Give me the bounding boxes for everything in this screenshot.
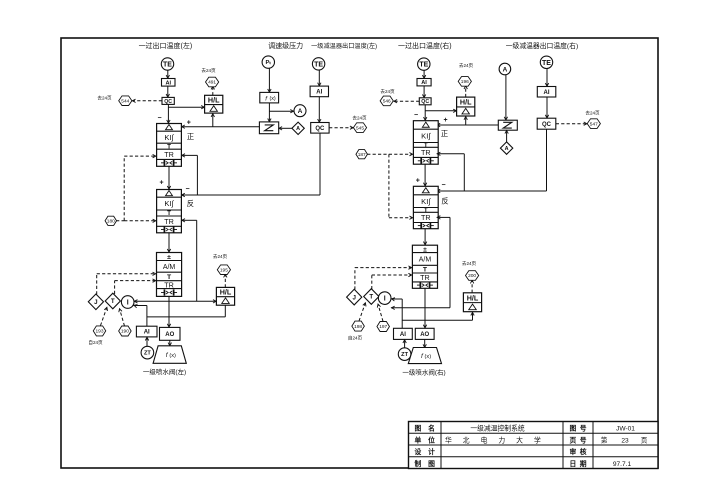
svg-text:TE: TE — [163, 62, 172, 69]
block QC4 — [537, 118, 556, 129]
wire H/L2-hex195 dashed — [224, 274, 226, 287]
hexagon 195 — [217, 265, 230, 275]
svg-text:正: 正 — [187, 132, 195, 141]
wire AI4-QC3 — [423, 86, 425, 98]
hexagon 545 — [353, 123, 366, 133]
wire hex187 dashed net — [367, 153, 412, 155]
svg-text:页 号: 页 号 — [570, 435, 587, 444]
svg-text:AI: AI — [165, 80, 171, 86]
sensor Pt — [262, 56, 274, 68]
hexagon 547 — [587, 119, 600, 129]
svg-text:TR: TR — [164, 150, 174, 159]
wire QC3 branch to H/L3 — [425, 110, 456, 112]
svg-text:J: J — [94, 299, 98, 306]
title block — [409, 422, 659, 469]
svg-text:去24页: 去24页 — [459, 62, 474, 69]
svg-text:H/L: H/L — [220, 288, 232, 297]
svg-text:AI: AI — [544, 90, 550, 96]
wire H/L1-hex491 dashed — [212, 86, 214, 95]
svg-text:单 位: 单 位 — [415, 435, 436, 444]
wire QC1 down to controller — [167, 104, 169, 123]
svg-text:反: 反 — [441, 197, 448, 206]
hexagon 200 — [466, 271, 479, 281]
wire AI3 riser to I — [146, 306, 148, 327]
wire stack2L TR to node — [181, 219, 196, 221]
wire branch to indicator A-left — [269, 110, 293, 112]
wire H/L3 output drop — [465, 116, 467, 125]
block QC1 — [162, 97, 174, 104]
block AI3 valve-position — [136, 326, 157, 337]
svg-text:TE: TE — [419, 62, 428, 69]
svg-text:去24页: 去24页 — [380, 88, 395, 95]
svg-text:QC: QC — [421, 99, 429, 105]
wire H/L4 bottom link — [472, 312, 474, 321]
wire QC3-hex546 dashed — [394, 100, 420, 102]
svg-text:去24页: 去24页 — [352, 115, 367, 122]
wire AMR output to AOR — [424, 288, 426, 328]
wire TE2-AI2 — [318, 70, 320, 86]
svg-text:A: A — [298, 108, 303, 115]
hexagon 197 — [377, 322, 390, 332]
svg-text:TR: TR — [164, 280, 174, 289]
monitor H/L1 — [205, 95, 223, 113]
block f(x) pressure — [260, 92, 279, 103]
svg-text:±: ± — [167, 254, 171, 261]
transmitter ZT left — [141, 346, 154, 359]
wire TE4-AI5 — [546, 69, 548, 87]
svg-text:H/L: H/L — [467, 293, 479, 302]
svg-text:H/L: H/L — [208, 96, 220, 105]
diamond T right — [364, 289, 379, 305]
svg-text:自24页: 自24页 — [348, 335, 363, 342]
station A/M left — [157, 253, 182, 297]
block AO left — [160, 327, 181, 340]
svg-text:197: 197 — [379, 324, 387, 330]
wire stack2L-AM — [168, 233, 170, 253]
svg-text:AI: AI — [400, 332, 406, 338]
wire ZTR-AIR — [404, 339, 406, 347]
block AIR valve-position — [394, 328, 413, 339]
svg-text:±: ± — [423, 247, 427, 254]
svg-text:AO: AO — [165, 332, 174, 338]
svg-text:544: 544 — [121, 98, 129, 104]
hexagon 190 — [119, 326, 131, 336]
sensor TE3 — [418, 58, 430, 70]
diamond T left — [105, 293, 120, 309]
wire AIR riser to IR — [401, 299, 403, 328]
diamond A-left — [292, 122, 304, 134]
wire QC4 down-left to stack2R — [546, 129, 548, 191]
svg-text:(x): (x) — [425, 354, 432, 360]
svg-text:华 北 电 力 大 学: 华 北 电 力 大 学 — [445, 435, 545, 444]
svg-text:AO: AO — [420, 332, 429, 338]
svg-text:一级减温控制系统: 一级减温控制系统 — [470, 424, 525, 433]
controller stack2R (reverse) — [413, 186, 438, 228]
svg-text:545: 545 — [356, 125, 364, 131]
sensor TE4 — [540, 56, 552, 68]
svg-text:A: A — [505, 146, 509, 152]
svg-text:I: I — [384, 296, 386, 303]
controller stack1R (direct) — [413, 121, 438, 165]
svg-text:−: − — [441, 182, 445, 189]
svg-text:190: 190 — [121, 329, 129, 335]
hexagon 180 — [105, 216, 117, 225]
svg-text:KI∫: KI∫ — [164, 133, 174, 142]
svg-text:TR: TR — [421, 213, 431, 222]
svg-text:去24页: 去24页 — [97, 95, 112, 102]
wire QC1-hex544 dashed — [132, 100, 162, 102]
wire hex198-diamondTR dashed — [359, 303, 365, 321]
monitor H/L2 — [216, 287, 234, 305]
svg-text:193: 193 — [95, 329, 103, 335]
svg-text:I: I — [127, 300, 129, 307]
wire SUM1 output to stack1L — [181, 126, 259, 128]
wire stack2R-AMR — [424, 229, 426, 245]
wire TE1-AI1 — [167, 70, 169, 78]
svg-text:QC: QC — [315, 126, 325, 132]
controller stack1L (direct) — [157, 124, 182, 167]
svg-text:H/L: H/L — [460, 98, 472, 107]
block AI4 — [417, 79, 431, 86]
svg-text:+: + — [416, 177, 420, 184]
wire hex180 dashed net — [116, 220, 124, 222]
hexagon 187 — [356, 150, 368, 159]
station A/M right — [412, 245, 437, 288]
drawing border frame — [61, 38, 658, 468]
svg-text:T: T — [111, 298, 115, 305]
actuator valve left — [153, 346, 186, 364]
svg-text:A: A — [503, 66, 508, 73]
svg-text:制 图: 制 图 — [415, 459, 436, 468]
svg-text:ZT: ZT — [401, 352, 408, 358]
svg-text:491: 491 — [208, 80, 216, 86]
wire diamondTR dashed to TR row — [371, 275, 373, 289]
svg-text:T: T — [369, 294, 373, 301]
wire stack1L-stack2L — [168, 166, 170, 189]
block AI1 — [162, 79, 176, 87]
svg-text:KI∫: KI∫ — [164, 199, 174, 208]
wire stack1L TR to node — [181, 154, 197, 156]
svg-text:A/M: A/M — [419, 257, 432, 264]
svg-text:J: J — [352, 294, 356, 301]
hexagon 198 — [352, 321, 365, 331]
wire diamondT dashed to TR row — [114, 281, 116, 294]
actuator valve right — [408, 348, 441, 364]
svg-text:一级喷水阀(左): 一级喷水阀(左) — [143, 367, 186, 376]
svg-text:图 号: 图 号 — [570, 424, 587, 433]
svg-text:审 核: 审 核 — [570, 447, 587, 456]
wire diamondA-SUM1 — [279, 127, 292, 129]
svg-text:TR: TR — [421, 148, 431, 157]
indicator I left — [121, 296, 134, 309]
svg-text:QC: QC — [542, 122, 552, 128]
svg-text:去24页: 去24页 — [213, 253, 228, 260]
wire H/L4-hex200 dashed — [471, 280, 473, 293]
wire SUM2 output to stack1R — [437, 124, 499, 126]
svg-text:187: 187 — [358, 152, 366, 158]
wire Pt-fx — [268, 68, 270, 92]
svg-text:(x): (x) — [169, 353, 176, 359]
wire AMR output bus — [391, 307, 450, 309]
wire diamondJ dashed to T row — [96, 274, 98, 295]
svg-text:页: 页 — [641, 436, 648, 444]
wire diamondA2-SUM2 — [506, 130, 508, 142]
wire H/L1 output drop — [212, 113, 214, 127]
indicator A-right — [499, 63, 511, 75]
wire AI2-QC2 — [318, 97, 320, 123]
summer SUM2 — [498, 120, 517, 130]
indicator I right — [378, 292, 391, 305]
svg-text:一级减温器出口温度(左): 一级减温器出口温度(左) — [311, 42, 377, 50]
svg-text:JW-01: JW-01 — [616, 426, 635, 433]
hexagon 193 — [93, 326, 106, 336]
wire AI1-QC1 — [167, 86, 169, 97]
wire diamondJR dashed to T row — [354, 268, 356, 290]
svg-text:97.7.1: 97.7.1 — [613, 461, 632, 468]
svg-text:去24页: 去24页 — [201, 67, 216, 74]
svg-text:TR: TR — [164, 217, 174, 226]
wire A-SUM2 — [505, 75, 507, 120]
svg-text:546: 546 — [383, 99, 391, 105]
indicator A-left — [294, 105, 306, 117]
svg-text:+: + — [187, 119, 191, 126]
svg-text:自24页: 自24页 — [88, 339, 103, 346]
diamond J left — [88, 294, 103, 310]
monitor H/L3 — [457, 97, 475, 116]
svg-text:−: − — [414, 112, 418, 119]
svg-text:图 名: 图 名 — [415, 424, 435, 433]
wire QC2-hex545 dashed — [329, 127, 353, 129]
svg-text:一级减温器出口温度(右): 一级减温器出口温度(右) — [506, 41, 579, 50]
svg-text:TE: TE — [314, 61, 323, 68]
svg-text:AI: AI — [421, 80, 427, 86]
svg-text:A/M: A/M — [163, 264, 176, 271]
block QC2 — [311, 123, 329, 134]
wire ZT-AI3 — [146, 337, 148, 346]
svg-text:KI∫: KI∫ — [421, 131, 431, 140]
summer SUM1 — [259, 122, 278, 134]
hexagon 544 — [119, 96, 132, 106]
svg-text:A: A — [296, 126, 300, 132]
wire hex197-diamondTR dashed — [378, 304, 383, 321]
svg-text:正: 正 — [441, 129, 449, 138]
svg-text:196: 196 — [461, 79, 469, 85]
wire fx-Sum1 — [268, 103, 270, 122]
svg-text:+: + — [443, 117, 447, 124]
svg-text:Pₜ: Pₜ — [266, 60, 272, 66]
wire TE3-AI4 — [423, 70, 425, 78]
svg-text:AI: AI — [316, 90, 322, 96]
svg-text:反: 反 — [187, 199, 194, 208]
wire hex193-diamondT dashed — [101, 308, 107, 326]
block AOR right — [415, 328, 434, 339]
wire AI5-QC4 — [546, 97, 548, 118]
sensor TE1 — [161, 58, 173, 70]
svg-text:547: 547 — [590, 121, 598, 127]
wire QC1 branch to H/L1 — [168, 106, 204, 108]
hexagon 491 — [206, 77, 219, 87]
wire QC2 down-left to stack2L — [319, 133, 321, 195]
wire hex190-diamondT dashed — [120, 309, 125, 326]
svg-text:设 计: 设 计 — [415, 447, 436, 456]
transmitter ZT right — [398, 348, 411, 361]
diamond A-right — [500, 142, 512, 154]
monitor H/L4 — [463, 293, 481, 312]
svg-text:去24页: 去24页 — [462, 260, 477, 267]
sensor TE2 — [312, 58, 324, 70]
block AI2 — [310, 86, 328, 97]
wire AOR-valveR — [424, 339, 426, 347]
diamond J right — [347, 289, 362, 305]
svg-text:一过出口温度(右): 一过出口温度(右) — [398, 41, 452, 50]
svg-text:第: 第 — [601, 435, 608, 444]
svg-text:180: 180 — [107, 219, 115, 225]
svg-text:去24页: 去24页 — [585, 110, 600, 117]
svg-text:200: 200 — [468, 273, 476, 279]
svg-text:(x): (x) — [269, 96, 275, 102]
wire QC4-hex547 dashed — [556, 123, 587, 125]
wire stack1R TR to node — [437, 153, 465, 155]
svg-text:日 期: 日 期 — [570, 459, 587, 468]
svg-text:198: 198 — [354, 324, 362, 330]
svg-text:23: 23 — [621, 437, 629, 444]
block QC3 — [419, 98, 431, 105]
svg-text:AI: AI — [144, 330, 150, 336]
wire AM output to AO — [168, 296, 170, 327]
block AI5 — [537, 87, 556, 98]
wire QC3 down to controller — [424, 105, 426, 121]
wire H/L3-hex196 dashed — [465, 86, 467, 98]
controller stack2L (reverse) — [157, 190, 182, 233]
wire AO-valve — [169, 340, 171, 345]
svg-text:−: − — [157, 115, 161, 122]
hexagon 196 — [458, 77, 471, 87]
svg-text:195: 195 — [220, 267, 228, 273]
svg-text:+: + — [159, 179, 163, 186]
svg-text:QC: QC — [164, 99, 172, 105]
svg-text:TE: TE — [542, 60, 551, 67]
svg-text:调速级压力: 调速级压力 — [268, 41, 303, 50]
wire stack2R TR to node — [437, 216, 450, 218]
svg-text:−: − — [185, 186, 189, 193]
wire H/L2 bottom link — [224, 305, 226, 317]
svg-text:一级喷水阀(右): 一级喷水阀(右) — [402, 368, 445, 377]
svg-text:ZT: ZT — [144, 351, 151, 357]
hexagon 546 — [380, 96, 393, 106]
wire AM output bus — [134, 300, 217, 302]
svg-text:KI∫: KI∫ — [421, 197, 431, 206]
wire stack1R-stack2R — [424, 164, 426, 186]
svg-text:一过出口温度(左): 一过出口温度(左) — [139, 41, 193, 50]
svg-text:TR: TR — [420, 273, 430, 282]
